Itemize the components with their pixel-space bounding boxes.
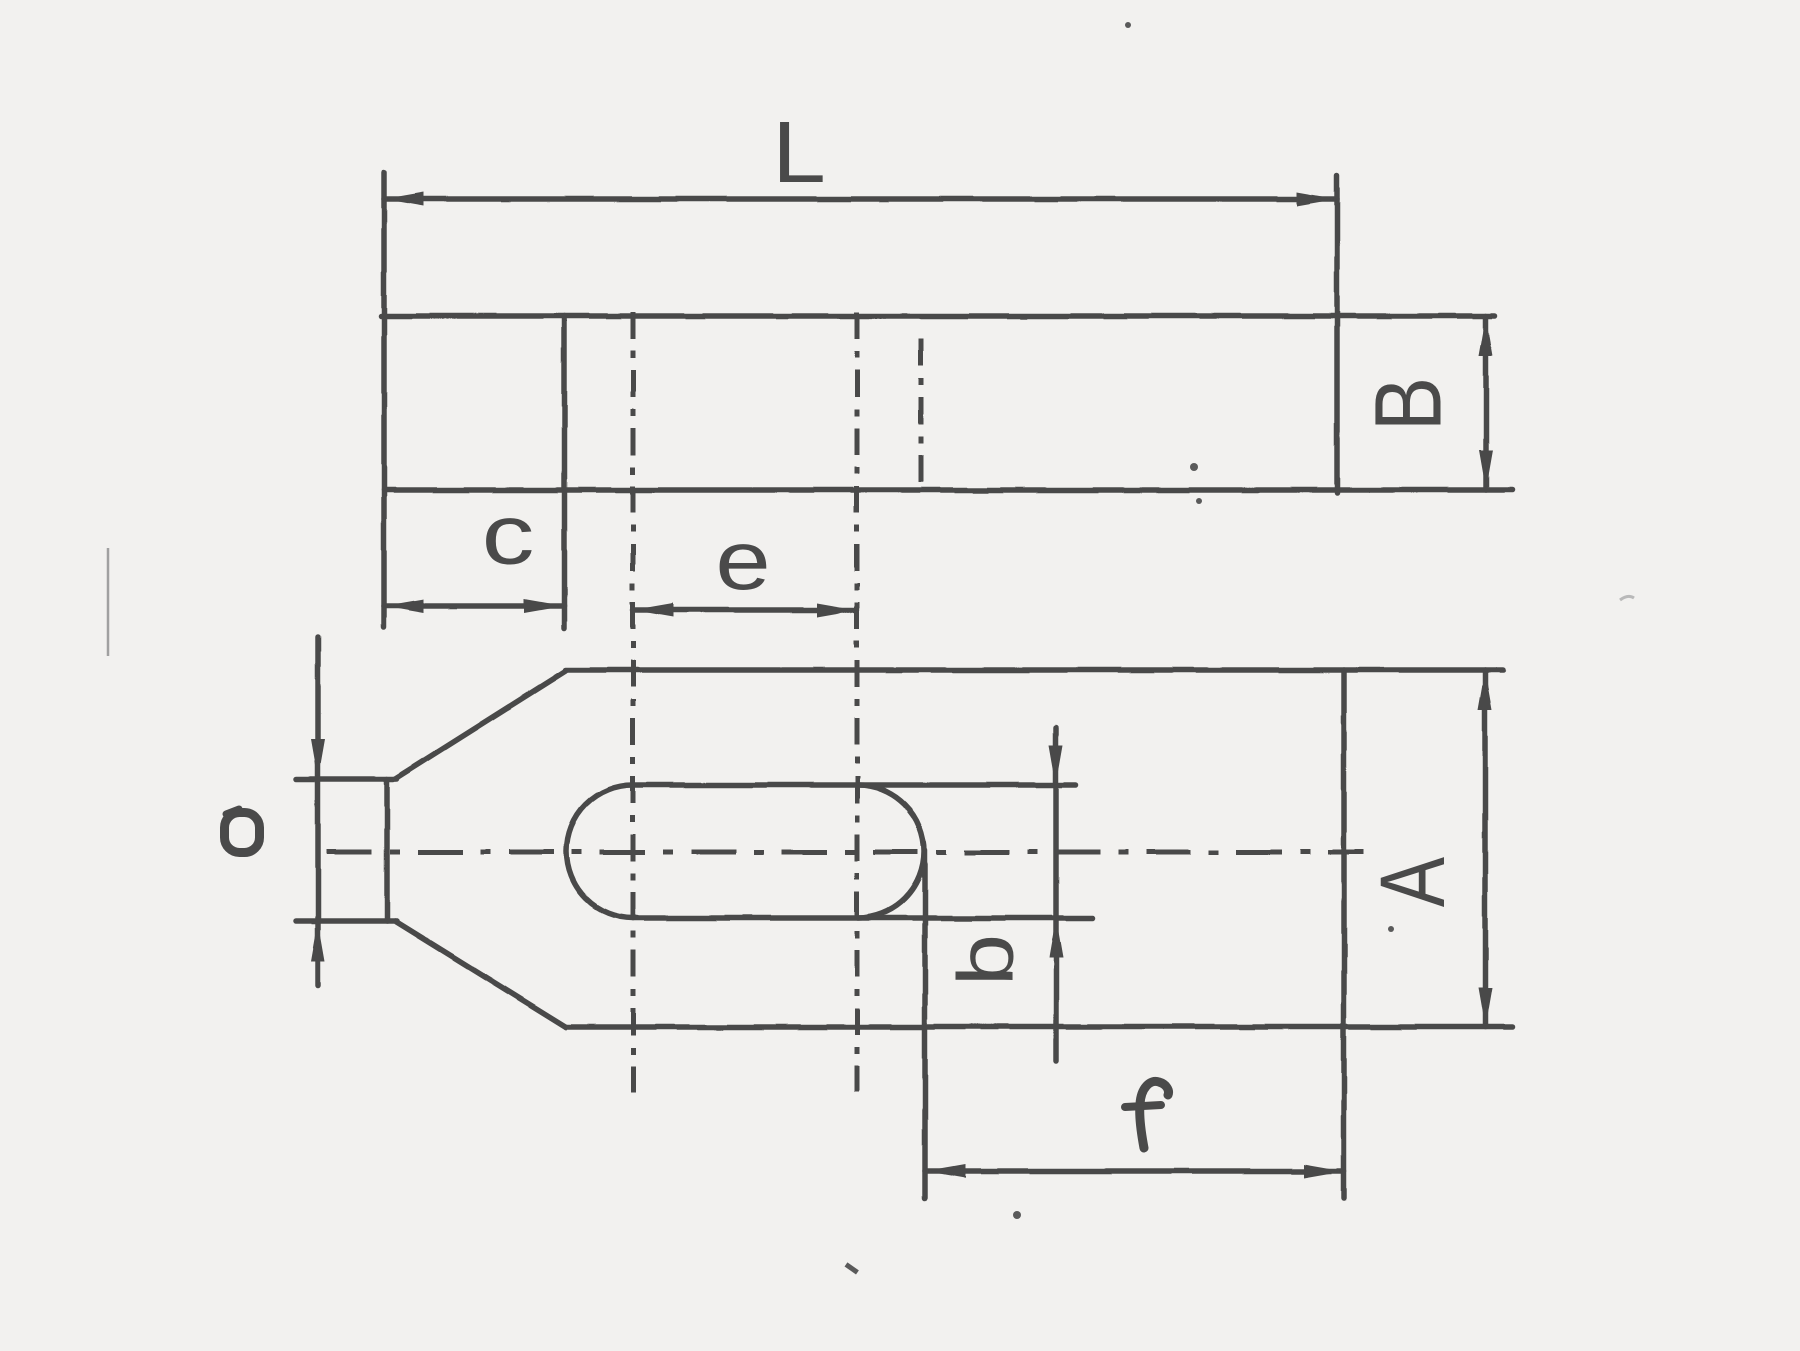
plan view top edge — [566, 667, 1503, 673]
arrowhead e right — [817, 603, 857, 617]
slot bottom edge / b bottom extension tick — [633, 915, 1093, 921]
arrowhead f right — [1304, 1164, 1344, 1178]
dimension b line — [1053, 728, 1059, 1061]
arrowhead A top — [1478, 670, 1492, 710]
dimension f line — [925, 1168, 1344, 1174]
dimension A line — [1482, 670, 1488, 1027]
plan view bottom chamfer — [395, 921, 566, 1027]
f left extension line — [922, 850, 928, 1198]
dimension a line — [315, 637, 321, 985]
faint mark right edge — [1620, 596, 1634, 600]
right extension line for L — [1334, 175, 1340, 493]
scan speck top — [1125, 22, 1131, 28]
horizontal centre line of slot — [327, 850, 1364, 855]
plan view bottom edge — [566, 1024, 1512, 1030]
side view bottom edge — [384, 487, 1512, 493]
dimension c line — [384, 603, 564, 609]
dimension e line — [633, 607, 857, 613]
left extension line (L / c / side-view left edge) — [381, 172, 387, 628]
scan speck right of side view — [1190, 463, 1198, 471]
scan speck lower middle — [845, 1262, 859, 1274]
svg-text:L: L — [772, 103, 826, 201]
scan speck near A label — [1388, 926, 1394, 932]
arrowhead c left — [384, 599, 424, 613]
label a (rotated, drawn as ring like the scan) — [225, 809, 260, 853]
slot left round end — [567, 785, 634, 918]
arrowhead a bottom (outside, pointing up) — [311, 921, 325, 961]
svg-text:b: b — [942, 934, 1029, 986]
scan speck below plan view — [1013, 1211, 1021, 1219]
hidden line slot right end in side view — [919, 339, 924, 491]
arrowhead b top (outside, pointing down) — [1049, 745, 1063, 785]
arrowhead c right — [524, 599, 564, 613]
centre line through slot (vertical, right arc centre) — [855, 312, 860, 1092]
label f (hand-lettered hook style) — [1125, 1081, 1169, 1148]
plan view right edge / f extension — [1341, 670, 1347, 1198]
arrowhead f left — [925, 1164, 965, 1178]
dimension B line — [1483, 316, 1489, 490]
arrowhead L left — [384, 192, 424, 206]
svg-text:c: c — [482, 488, 535, 583]
extension tick a bottom — [296, 918, 397, 924]
side view step line / c extension — [561, 316, 567, 628]
svg-text:B: B — [1355, 377, 1461, 431]
arrowhead e left — [633, 603, 673, 617]
faint scanner streak left edge — [107, 548, 110, 656]
extension tick a top — [296, 776, 397, 782]
side view top edge — [381, 313, 1495, 319]
dimension L line — [384, 196, 1337, 202]
plan view top chamfer — [395, 671, 566, 779]
arrowhead B bottom — [1479, 450, 1493, 490]
slot right round end — [858, 785, 925, 918]
arrowhead L right — [1297, 192, 1337, 206]
svg-text:A: A — [1361, 857, 1464, 907]
plan view left end edge — [384, 779, 390, 921]
arrowhead b bottom (outside, pointing up) — [1049, 918, 1063, 958]
arrowhead B top — [1479, 316, 1493, 356]
slot top edge / b top extension tick — [633, 782, 1076, 788]
arrowhead A bottom — [1478, 987, 1492, 1027]
arrowhead a top (outside, pointing down) — [311, 739, 325, 779]
svg-text:e: e — [715, 515, 770, 608]
scan speck below side view — [1196, 498, 1202, 504]
centre line through slot (vertical, left arc centre) — [631, 312, 636, 1092]
